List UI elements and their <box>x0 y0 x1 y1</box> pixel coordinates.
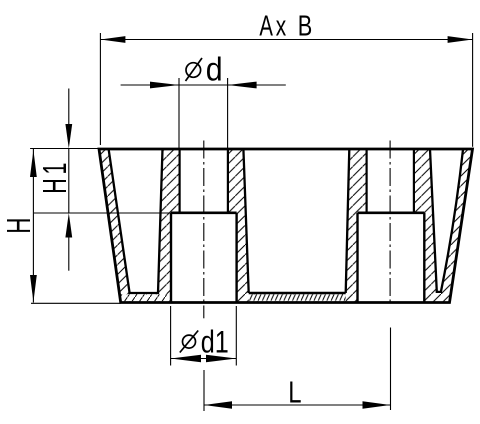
dimension od line <box>121 84 286 86</box>
central cavity right edge <box>346 149 350 293</box>
AxB arrow right <box>448 36 473 43</box>
H arrow bottom <box>30 275 37 302</box>
H arrow top <box>30 150 37 177</box>
svg-text:x: x <box>276 10 287 42</box>
right counterbore wall left <box>356 213 358 303</box>
od arrow right <box>228 82 257 89</box>
dimension H line <box>32 149 34 303</box>
svg-text:d: d <box>206 50 223 87</box>
hatched center section (bosses + membrane) <box>228 149 367 303</box>
left V groove <box>109 149 163 293</box>
AxB extension line right <box>472 33 474 147</box>
svg-text:B: B <box>298 11 313 43</box>
od extension line right <box>227 78 229 148</box>
strip under left V groove dense hatch <box>120 294 171 301</box>
H1 arrow bottom head <box>65 213 72 238</box>
left counterbore wall right <box>235 213 237 303</box>
H1 arrow top tail <box>68 89 70 127</box>
right hole d wall left <box>366 149 368 213</box>
centerline right hole <box>389 141 391 305</box>
AxB arrow left <box>100 36 125 43</box>
right counterbore wall right <box>423 213 425 303</box>
od arrow left <box>150 82 179 89</box>
central cavity left edge <box>243 149 248 293</box>
left counterbore wall left <box>170 213 172 303</box>
dimension H1 line <box>68 149 70 214</box>
left counterbore shoulder <box>171 212 237 215</box>
L extension line left (hole centerline extension) <box>203 370 205 411</box>
hatched left wall section <box>99 149 180 303</box>
H1 reference line bottom <box>34 212 171 214</box>
L arrow right <box>363 401 391 408</box>
od extension line left <box>178 78 180 148</box>
od1 extension line right <box>235 306 237 366</box>
membrane strip dense hatch <box>249 294 346 301</box>
svg-text:H1: H1 <box>36 163 73 194</box>
H reference line top <box>30 148 99 150</box>
L extension line right (hole centerline extension) <box>390 328 392 411</box>
right V groove <box>430 150 463 292</box>
body outline (trapezoid) <box>99 149 473 303</box>
centerline left hole <box>203 141 205 304</box>
svg-text:d1: d1 <box>201 325 229 360</box>
dimension AxB line <box>100 39 472 41</box>
label od: diameter symbol <box>186 58 203 81</box>
central cavity membrane top <box>249 292 346 294</box>
left hole d wall right <box>227 149 229 213</box>
H reference line bottom <box>31 302 121 304</box>
svg-text:H: H <box>0 218 38 234</box>
centerline left hole stub below body <box>203 306 205 319</box>
dimension od1 line <box>171 358 237 360</box>
svg-text:L: L <box>288 374 301 409</box>
od1 arrow left <box>171 355 201 362</box>
H1 arrow top head <box>65 124 72 149</box>
left hole d wall left <box>179 149 181 213</box>
hatched right wall section <box>414 149 473 303</box>
od1 arrow right <box>206 355 236 362</box>
label od1: diameter symbol <box>180 331 198 353</box>
dimension L line <box>204 404 391 406</box>
svg-text:A: A <box>259 10 273 42</box>
H1 arrow bottom tail <box>68 237 70 271</box>
AxB extension line left <box>99 33 101 145</box>
od1 extension line left <box>170 306 172 366</box>
right counterbore shoulder <box>358 212 425 215</box>
L arrow left <box>204 401 232 408</box>
right hole d wall right <box>413 149 415 213</box>
